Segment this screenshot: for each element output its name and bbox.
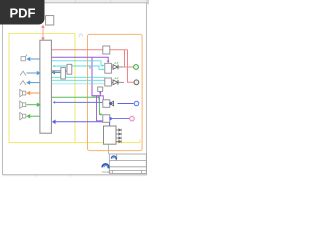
diode D1 <box>111 62 123 69</box>
logo small <box>111 156 116 159</box>
pin arrows U2 <box>116 129 121 143</box>
regulator X2 <box>67 64 72 74</box>
wire purple net <box>52 57 109 61</box>
wire green B <box>54 101 103 103</box>
wire teal to X1 <box>52 71 61 74</box>
ferrite E1 <box>103 46 110 54</box>
wire stub U2 to frame <box>108 144 110 154</box>
driver A2 <box>105 78 112 86</box>
connector P1 <box>134 101 139 106</box>
switch SW2 <box>20 81 26 85</box>
crystal X1 <box>61 68 66 79</box>
lamp DS2 <box>134 80 139 85</box>
wire yellow sheet loop <box>9 34 140 143</box>
wire red VCC net <box>52 50 134 83</box>
wire green ls3 <box>27 115 40 118</box>
wire blue sw2 <box>27 81 40 84</box>
LED lamp DS1 <box>134 65 139 70</box>
wire blue 2 <box>53 120 110 126</box>
buffer G2 <box>103 115 110 123</box>
PDF badge <box>0 0 45 25</box>
IC U1 <box>40 40 52 133</box>
title block <box>109 154 146 173</box>
svg-text:(*): (*) <box>79 32 84 37</box>
wire blue mic <box>27 58 40 61</box>
wire red to J1 <box>42 25 44 40</box>
switch SW1 <box>20 71 26 75</box>
speaker LS1 <box>20 89 26 96</box>
microphone MK1 <box>21 55 27 61</box>
connector P2 <box>130 116 135 121</box>
wire blue g2 out <box>110 117 129 120</box>
wire cyan trio to A2 <box>52 77 105 84</box>
speaker LS2 <box>20 101 26 108</box>
svg-text:PDF: PDF <box>10 5 36 20</box>
sensor S1 <box>98 87 103 91</box>
node label mark <box>89 65 91 68</box>
wire blue sw1 <box>27 72 40 75</box>
diode D2 <box>111 78 124 85</box>
buffer G1 <box>103 100 110 108</box>
wire purple cluster <box>92 96 103 100</box>
wire blue g1 out <box>110 101 134 106</box>
connector J1 <box>46 16 54 25</box>
wire green A <box>52 97 102 114</box>
speaker LS3 <box>20 112 26 119</box>
wire cyan pair to A1 <box>52 61 104 70</box>
wire orange frame net <box>88 34 143 150</box>
wire violet to X2 <box>52 70 68 72</box>
wire green ls2 <box>27 103 40 106</box>
IC U2 <box>104 126 117 144</box>
logo OrCAD <box>102 164 111 174</box>
svg-text:OrCAD: OrCAD <box>102 170 111 174</box>
driver A1 <box>105 63 112 73</box>
wire orange ls1 <box>27 92 40 95</box>
